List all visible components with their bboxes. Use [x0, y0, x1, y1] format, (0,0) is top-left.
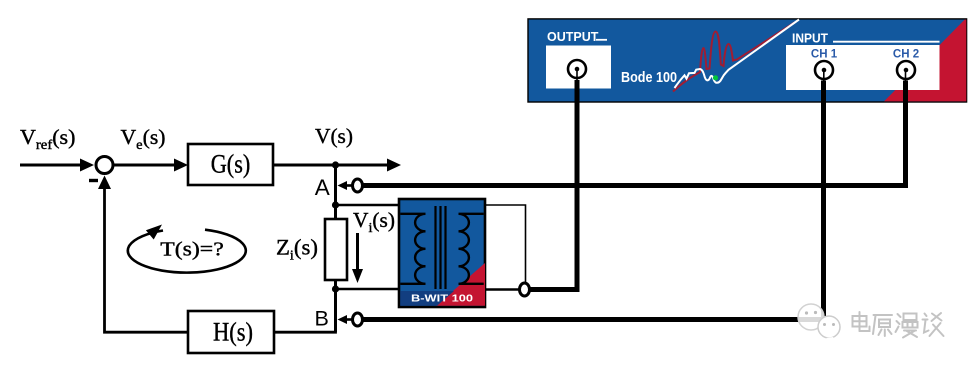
svg-text:Vi(s): Vi(s) [353, 208, 395, 236]
node upper Zi junction dot [332, 201, 339, 208]
wire G(s) to node V [273, 164, 336, 167]
probe arrow into node A [338, 181, 354, 190]
connector CH2 BNC [897, 61, 915, 79]
transformer primary winding [400, 214, 425, 284]
arrowhead into summer [80, 159, 94, 172]
impedance Zi block [325, 219, 347, 280]
svg-text:CH 1: CH 1 [811, 49, 838, 61]
loop gain ellipse arrow [128, 225, 246, 273]
red corner swoosh on Bode 100 [884, 20, 966, 102]
arrowhead feedback into summer [98, 176, 111, 190]
svg-text:Ve(s): Ve(s) [121, 125, 166, 153]
svg-text:Bode 100: Bode 100 [621, 69, 677, 86]
indicator green dot [713, 75, 718, 80]
probe tip connector at B [353, 313, 363, 326]
label OUTPUT [547, 30, 607, 44]
watermark text 电源漫谈 [853, 312, 945, 339]
block H(s) [188, 311, 274, 353]
transformer red corner [436, 263, 485, 306]
wire node to transformer bottom [336, 288, 401, 291]
svg-text:OUTPUT: OUTPUT [547, 30, 599, 44]
transformer secondary winding [459, 214, 484, 284]
svg-text:A: A [315, 175, 330, 200]
watermark logo chat bubbles [797, 304, 840, 344]
svg-text:Zi(s): Zi(s) [276, 235, 318, 264]
label INPUT [792, 31, 940, 45]
connector CH1 BNC [815, 61, 833, 79]
wire transformer bottom to BNC [485, 288, 520, 290]
arrowhead output [387, 159, 401, 172]
wire summer to G(s) [114, 164, 177, 167]
cable B to CH1 [363, 81, 824, 320]
wire transformer top to BNC [485, 205, 526, 283]
wire B node down to H(s) [274, 331, 336, 333]
probe arrow into node B [338, 315, 354, 324]
transformer core lines [436, 206, 446, 289]
arrow Vi direction [352, 233, 363, 283]
INPUT connector plate [786, 45, 940, 90]
summing junction [96, 157, 113, 174]
svg-text:V(s): V(s) [315, 124, 353, 148]
wire main vertical A-B [334, 165, 337, 332]
arrowhead into G(s) [174, 159, 188, 172]
waveform graphic red curve [673, 23, 795, 92]
probe tip connector at A [353, 179, 363, 192]
cable OUTPUT to transformer [530, 80, 578, 290]
svg-text:H(s): H(s) [213, 318, 253, 347]
svg-text:B-WIT 100: B-WIT 100 [411, 293, 473, 305]
wire reference input [20, 164, 83, 167]
node V junction dot [332, 161, 339, 168]
cable A to CH2 [363, 81, 906, 186]
OUTPUT connector plate [546, 46, 611, 89]
wire feedback H(s) to summer [105, 186, 189, 332]
node lower Zi junction dot [332, 285, 339, 292]
minus sign at summer [89, 179, 98, 182]
connector BNC at transformer [520, 283, 530, 296]
block G(s) [188, 144, 273, 185]
svg-text:CH 2: CH 2 [893, 49, 919, 61]
transformer label strip [400, 291, 473, 306]
svg-text:G(s): G(s) [211, 150, 251, 179]
wire node to transformer top [336, 204, 401, 207]
instrument Bode 100 front panel [528, 19, 967, 102]
waveform graphic white curve [675, 20, 800, 89]
wire output arrow [336, 164, 390, 167]
svg-text:B: B [315, 307, 329, 331]
transformer B-WIT 100 body [399, 199, 485, 307]
svg-text:INPUT: INPUT [792, 31, 828, 45]
connector OUTPUT BNC [568, 60, 586, 78]
svg-text:T(s)=?: T(s)=? [160, 239, 224, 261]
